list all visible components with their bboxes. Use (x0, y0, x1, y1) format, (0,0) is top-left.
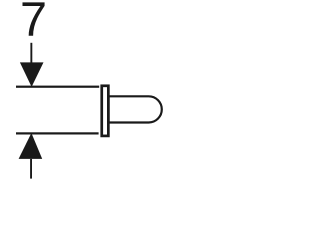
top dimension line (horizontal) (16, 86, 99, 88)
pin mounting plate (side view) (102, 86, 109, 136)
pin peg (rounded bar, side view) (109, 96, 162, 122)
dimension arrow (up, pointing at bottom line) (19, 133, 43, 159)
dimension leader line (vertical, above top arrow) (30, 43, 32, 63)
dimension arrow (down, pointing at top line) (20, 62, 44, 87)
svg-text:7: 7 (20, 0, 47, 46)
dimension leader line (vertical, below bottom arrow) (30, 159, 32, 179)
bottom dimension line (horizontal) (16, 132, 99, 134)
